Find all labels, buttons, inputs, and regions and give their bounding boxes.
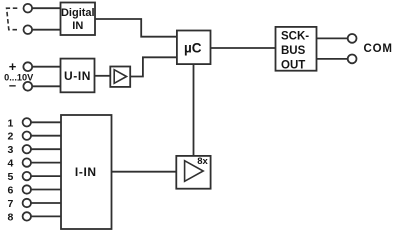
wire input 8 to I-IN [31,215,61,217]
wire input 6 to I-IN [31,189,61,191]
wire SCK-BUS OUT to COM terminal T5 [317,37,348,39]
switch S1 (external contact, dashed) [7,8,18,30]
wire input 3 to I-IN [31,148,61,150]
wire input 4 to I-IN [31,162,61,164]
wire T2 to Digital IN [32,29,60,31]
wire uC to SCK-BUS OUT [211,47,276,49]
wire input 5 to I-IN [31,175,61,177]
terminal T9 (input 3) [23,145,31,153]
terminal T4 (U-IN -) [23,82,32,91]
terminal T1 (digital input +) [24,4,33,13]
svg-text:2: 2 [7,131,13,143]
terminal T13 (input 7) [23,199,31,207]
wire SCK-BUS OUT to COM terminal T6 [317,58,348,60]
svg-text:COM: COM [364,43,393,55]
wire I-IN to amplifier A2 [112,171,177,173]
terminal T7 (input 1) [23,118,31,126]
svg-text:6: 6 [7,185,13,197]
terminal T3 (U-IN +) [23,62,32,71]
svg-text:IN: IN [72,20,83,32]
wire uC to amplifier A2 [193,64,195,156]
terminal T2 (digital input -) [24,25,33,34]
svg-text:–: – [9,78,16,93]
amplifier A1 [110,67,130,87]
wire input 1 to I-IN [31,121,61,123]
value label 0...10V with polarity [4,59,34,93]
wire Digital IN to uC [95,19,177,37]
wire U-IN to amplifier A1 [95,75,111,77]
amplifier A2 (gain 8x) [176,156,210,189]
terminal T8 (input 2) [23,132,31,140]
block Digital IN [61,3,96,36]
block uC U1 [177,31,211,65]
wire T3 to U-IN [32,66,60,68]
svg-text:OUT: OUT [281,59,305,71]
terminal T12 (input 6) [23,185,31,193]
svg-text:I-IN: I-IN [75,165,97,179]
wire input 2 to I-IN [31,135,61,137]
svg-text:BUS: BUS [281,45,306,57]
svg-text:U-IN: U-IN [64,69,91,83]
block I-IN [61,115,112,229]
block U-IN [61,59,95,93]
svg-text:7: 7 [7,198,13,210]
wire amplifier A1 to uC [130,57,177,76]
svg-text:1: 1 [7,117,13,129]
wire T4 to U-IN [32,85,60,87]
terminal T6 (COM) [348,55,357,64]
svg-text:4: 4 [7,158,13,170]
svg-text:Digital: Digital [61,7,95,19]
wire T1 to Digital IN [32,7,60,9]
svg-text:SCK-: SCK- [281,31,309,43]
terminal T14 (input 8) [23,212,31,220]
terminal T11 (input 5) [23,172,31,180]
svg-text:8x: 8x [197,156,208,167]
svg-text:3: 3 [7,144,13,156]
svg-text:8: 8 [7,211,13,223]
svg-text:µC: µC [184,40,202,55]
terminal T10 (input 4) [23,158,31,166]
block SCK-BUS OUT [276,27,317,72]
terminal T5 (COM) [348,34,357,43]
wire input 7 to I-IN [31,202,61,204]
svg-text:5: 5 [7,171,13,183]
